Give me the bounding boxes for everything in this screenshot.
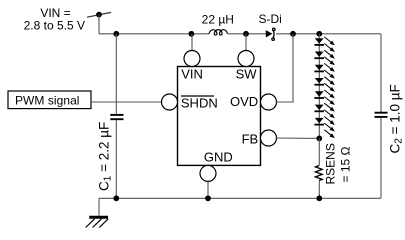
LED D4 xyxy=(314,78,324,85)
wire left branch lower (C1 to bottom rail) xyxy=(115,120,117,198)
svg-text:S-Di: S-Di xyxy=(259,12,282,26)
svg-text:SHDN: SHDN xyxy=(181,96,218,111)
node: GND pin junction xyxy=(205,195,211,201)
wire left branch upper (rail to C1) xyxy=(115,34,117,114)
wire VIN terminal to top rail xyxy=(98,15,100,34)
LED emission arrows xyxy=(324,37,334,137)
pin SHDN (active low) xyxy=(162,94,218,111)
svg-text:FB: FB xyxy=(242,132,259,147)
wire RSENS to bottom rail xyxy=(318,181,320,199)
LED D3 xyxy=(314,65,324,72)
node: bottom rail left junction xyxy=(113,195,119,201)
node: LED bottom / FB / RSENS junction xyxy=(316,136,322,142)
node: VIN pin junction xyxy=(189,31,195,37)
svg-text:RSENS: RSENS xyxy=(324,143,338,184)
wire inductor to diode xyxy=(228,33,267,35)
svg-text:VIN: VIN xyxy=(181,67,203,82)
PWM signal box xyxy=(8,91,91,109)
IC body U1 xyxy=(178,67,261,166)
LED D1 xyxy=(314,38,324,45)
wire OVD to top rail xyxy=(277,34,294,102)
svg-text:= 15 Ω: = 15 Ω xyxy=(339,146,353,182)
capacitor C2 xyxy=(375,84,405,153)
node: LED branch junction xyxy=(316,31,322,37)
LED D2 xyxy=(314,52,324,59)
schottky diode S-Di xyxy=(259,12,282,40)
node: RSENS bottom junction xyxy=(316,195,322,201)
svg-text:OVD: OVD xyxy=(230,94,258,109)
wire junction to RSENS xyxy=(318,138,320,165)
label VIN = 2.8 to 5.5 V xyxy=(24,6,85,33)
resistor RSENS xyxy=(315,143,352,184)
pin SW xyxy=(236,34,258,82)
wire PWM to SHDN pin xyxy=(91,101,162,103)
pin GND xyxy=(200,149,233,198)
wire FB to LED/RSENS junction xyxy=(277,137,320,139)
wire diode to top-right corner xyxy=(276,33,381,35)
ground symbol xyxy=(86,217,109,227)
wire bottom rail xyxy=(99,197,381,199)
LED D6 xyxy=(314,105,324,112)
wire top rail left segment xyxy=(99,33,209,35)
svg-text:PWM signal: PWM signal xyxy=(15,94,80,108)
pin FB xyxy=(242,130,277,147)
node: OVD branch junction xyxy=(290,31,296,37)
svg-text:GND: GND xyxy=(204,149,233,164)
VIN input terminal xyxy=(87,12,111,18)
svg-text:SW: SW xyxy=(236,67,258,82)
LED D5 xyxy=(314,91,324,98)
svg-text:22 µH: 22 µH xyxy=(202,12,234,26)
svg-text:2.8 to 5.5 V: 2.8 to 5.5 V xyxy=(24,19,85,33)
LED D7 xyxy=(314,118,324,125)
capacitor C1 xyxy=(97,115,124,191)
wire to chassis ground xyxy=(98,198,100,215)
LED string branch wire xyxy=(318,34,320,139)
wire right branch with C2 xyxy=(380,34,382,112)
pin OVD xyxy=(230,94,276,110)
pin VIN xyxy=(181,34,203,82)
node: SW pin junction xyxy=(243,31,249,37)
inductor 22 µH xyxy=(202,12,234,35)
node: C1 branch junction on top rail xyxy=(113,31,119,37)
